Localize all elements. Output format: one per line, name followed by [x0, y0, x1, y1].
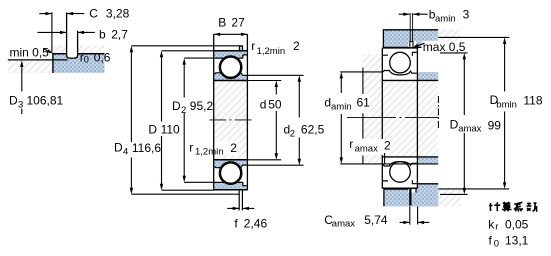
housing lower right raised part (blue) [417, 184, 439, 207]
D2 dimension column [184, 57, 214, 59]
shaft shoulder upper (blue) [417, 72, 438, 80]
bamin extension lines [409, 13, 411, 42]
svg-text:0: 0 [494, 238, 499, 249]
svg-text:r: r [495, 222, 498, 233]
housing groove gap lower (white) [408, 185, 416, 193]
max 0,5 label with leader [415, 43, 425, 47]
Camax extension lines [409, 206, 411, 224]
outer ring lower (blue) [214, 182, 247, 189]
svg-text:50: 50 [268, 97, 282, 111]
D dimension column [162, 50, 214, 52]
svg-text:D: D [9, 93, 18, 107]
d dimension column [247, 80, 281, 82]
groove right wall lower [415, 184, 417, 193]
svg-text:d: d [260, 97, 267, 111]
svg-text:r: r [349, 137, 353, 151]
raceway arc lower [389, 161, 411, 183]
snap ring lower (black bar) [409, 186, 411, 206]
inner ring lower (blue) [214, 160, 247, 167]
inner ring upper (blue) [214, 73, 247, 80]
svg-text:95,2: 95,2 [190, 99, 214, 113]
OD line lower [382, 187, 417, 189]
svg-text:amin: amin [435, 14, 456, 25]
hatch left of ring face (snap ring ghost) [8, 61, 52, 73]
Dbmin dimension column [438, 36, 509, 38]
bore line upper [214, 80, 248, 82]
shaft shoulder lower (blue) [417, 157, 438, 164]
snap ring groove white cut [67, 45, 77, 58]
svg-text:0,05: 0,05 [505, 217, 529, 231]
centerline axis [210, 119, 252, 121]
svg-text:r: r [251, 39, 255, 53]
damin label white backing [323, 94, 370, 114]
b dimension line right segment with arrow [78, 31, 95, 33]
svg-text:106,81: 106,81 [27, 93, 64, 107]
svg-text:61: 61 [357, 96, 371, 110]
snap ring tab upper (blue) [239, 46, 242, 51]
shaft face line [362, 68, 364, 164]
svg-text:1,2min: 1,2min [195, 147, 224, 158]
inner ring lower top outline [214, 165, 247, 168]
outer ring upper outline [383, 52, 417, 55]
LOWER bearing section (white) [383, 157, 417, 188]
f dimension arrows [227, 207, 239, 209]
ramax label [346, 139, 391, 155]
inner ring upper outline [383, 71, 417, 75]
svg-text:27: 27 [231, 16, 245, 30]
svg-text:D: D [172, 99, 181, 113]
bearing right face line [416, 48, 418, 188]
svg-text:2: 2 [290, 129, 295, 140]
housing upper block (blue) [383, 29, 438, 47]
svg-text:C: C [89, 7, 98, 21]
svg-text:3: 3 [463, 8, 470, 22]
svg-text:b: b [99, 27, 106, 41]
Camax arrows [400, 221, 410, 223]
ring face line [52, 53, 54, 73]
D3 arrow pointing up [20, 60, 23, 67]
bamin arrows [399, 13, 410, 15]
svg-text:1,2min: 1,2min [257, 46, 286, 57]
ball upper [220, 57, 240, 77]
bore line upper (extends to shoulder) [382, 79, 438, 81]
svg-text:amax: amax [332, 218, 355, 229]
svg-text:2: 2 [230, 141, 237, 155]
svg-text:amax: amax [458, 123, 481, 134]
D3 leader stub below text [21, 109, 23, 115]
hatch: shaft left of bearing [362, 54, 382, 164]
outer ring cross-section block [53, 54, 105, 73]
svg-text:D: D [148, 123, 157, 137]
UPPER bearing section (white) [383, 48, 417, 80]
housing lower outline [384, 184, 438, 207]
hatch: housing ghost upper right [438, 29, 460, 54]
B dimension line with arrows [214, 33, 248, 35]
svg-text:2,46: 2,46 [244, 217, 268, 231]
svg-text:110: 110 [161, 123, 180, 137]
outer ring upper (blue) [214, 51, 247, 58]
bore line lower [214, 159, 248, 161]
axis centerline [347, 116, 439, 118]
ball lower [220, 163, 240, 183]
svg-text:62,5: 62,5 [301, 123, 325, 137]
svg-text:min 0,5: min 0,5 [10, 45, 50, 59]
svg-text:B: B [218, 16, 226, 30]
housing groove gap upper (white) [408, 41, 416, 47]
OD line upper [382, 47, 417, 49]
hatch above outer ring OD (housing ghost) [47, 45, 105, 53]
min 0,5 leader arrow to groove edge distance [44, 49, 52, 53]
OD line upper [214, 50, 248, 52]
d2 dimension column [247, 74, 303, 76]
Damax dimension column [440, 52, 468, 54]
ball lower [390, 162, 411, 183]
D3 groove diameter line [8, 59, 68, 61]
ball upper [390, 52, 411, 73]
bore line lower (extends to shoulder) [382, 156, 438, 158]
svg-text:bmin: bmin [496, 99, 517, 110]
max 0,5 label white backing [422, 41, 464, 53]
outer ring bore/shoulder edge upper [214, 55, 247, 58]
计算系数 heading (drawn strokes) [489, 202, 538, 211]
housing bore line upper [383, 46, 438, 48]
bearing right face line [246, 34, 248, 190]
C extension line (ring face extended) [51, 12, 53, 53]
b dimension line left segment with arrow [38, 31, 67, 33]
bore hatch between sections [214, 81, 247, 159]
svg-text:D: D [114, 140, 123, 154]
hatch: shaft bore region [383, 81, 438, 156]
snap ring tab upper (white with outline) [410, 42, 413, 51]
C dimension line left segment with arrow [39, 13, 52, 15]
svg-text:2: 2 [293, 39, 300, 53]
hatch: housing ghost lower right [438, 188, 461, 207]
housing upper outline [383, 30, 438, 48]
inner ring upper top outline [214, 73, 247, 76]
svg-text:0: 0 [84, 55, 89, 66]
svg-text:2: 2 [181, 105, 186, 116]
svg-text:3: 3 [18, 99, 23, 110]
raceway window upper [219, 56, 242, 79]
raceway arc upper [389, 52, 411, 74]
svg-text:max 0,5: max 0,5 [423, 40, 466, 54]
groove left wall + rounded bottom + right wall [67, 12, 78, 58]
white knockout for lower r label [214, 141, 238, 156]
svg-text:2: 2 [384, 138, 391, 152]
svg-text:amax: amax [355, 143, 378, 154]
svg-text:4: 4 [123, 146, 128, 157]
bearing left face line [213, 34, 215, 190]
snap ring tab lower (two lines continuing as f extension) [238, 190, 240, 210]
svg-text:116,6: 116,6 [132, 141, 161, 155]
ramax leader [384, 153, 386, 165]
raceway window lower [219, 162, 242, 185]
C dimension line right segment with arrow [67, 13, 85, 15]
svg-text:99: 99 [488, 119, 502, 133]
svg-text:0,6: 0,6 [94, 50, 111, 64]
ring OD line [52, 53, 104, 55]
bearing left face line [381, 48, 383, 188]
D4 dimension column [131, 45, 242, 47]
damin dimension column [340, 71, 382, 73]
outer ring lower outline [383, 181, 417, 184]
inner ring lower outline [383, 162, 417, 166]
svg-text:amin: amin [331, 102, 352, 113]
svg-text:5,74: 5,74 [364, 213, 388, 227]
svg-text:r: r [189, 140, 193, 154]
svg-text:3,28: 3,28 [106, 7, 130, 21]
right boundary dash-dot [437, 96, 439, 130]
svg-text:2,7: 2,7 [111, 27, 128, 41]
outer ring bore/shoulder edge lower [214, 182, 247, 185]
housing lower block (blue) [384, 189, 438, 206]
svg-text:118: 118 [523, 93, 542, 107]
svg-text:13,1: 13,1 [505, 233, 529, 247]
OD line lower [214, 189, 248, 191]
